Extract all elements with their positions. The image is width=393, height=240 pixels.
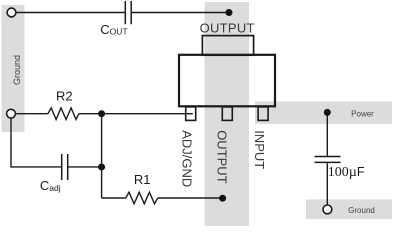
wire left down to Cadj bbox=[11, 118, 61, 167]
capacitor COUT bbox=[125, 1, 131, 24]
pin 2 OUTPUT bbox=[222, 107, 232, 121]
capacitor Cadj bbox=[62, 154, 68, 180]
node: output junction dot (top) bbox=[226, 9, 233, 16]
output net band (vertical) bbox=[205, 2, 250, 226]
svg-text:INPUT: INPUT bbox=[252, 130, 267, 169]
wire top: terminal to COUT to output node bbox=[16, 12, 229, 14]
wire from R2 to pin ADJ/GND bbox=[79, 113, 193, 115]
wire vertical junction column bbox=[101, 114, 103, 198]
svg-text:COUT: COUT bbox=[100, 22, 127, 37]
wire R1 to output node bbox=[158, 197, 223, 199]
wire Cadj to junction bbox=[68, 166, 101, 168]
svg-text:OUTPUT: OUTPUT bbox=[200, 21, 255, 36]
svg-text:ADJ/GND: ADJ/GND bbox=[179, 130, 194, 187]
wire to R1 bbox=[102, 197, 126, 199]
svg-text:100µF: 100µF bbox=[328, 165, 365, 180]
resistor R1 bbox=[126, 192, 158, 204]
capacitor C1 100uF bbox=[315, 157, 341, 163]
svg-text:OUTPUT: OUTPUT bbox=[214, 130, 229, 184]
wire power node down to C1 bbox=[326, 112, 328, 205]
svg-text:R2: R2 bbox=[56, 88, 73, 103]
power plane band (right) bbox=[255, 101, 392, 124]
svg-text:Power: Power bbox=[351, 110, 374, 119]
svg-text:R1: R1 bbox=[134, 172, 151, 187]
wire mid: terminal through R2 to ADJ pin bbox=[15, 113, 48, 115]
terminal (bottom right ground) bbox=[323, 205, 332, 214]
svg-text:Cadj: Cadj bbox=[40, 178, 61, 193]
node: output junction dot (bottom) bbox=[219, 195, 226, 202]
terminal (mid left) bbox=[7, 109, 16, 118]
ground plane band (bottom right) bbox=[306, 199, 392, 219]
node junction dot (Cadj) bbox=[98, 164, 105, 171]
ground plane band (left) bbox=[2, 5, 25, 132]
node: power junction dot bbox=[324, 109, 331, 116]
regulator U1 tab bbox=[202, 36, 253, 56]
pin 3 INPUT bbox=[258, 107, 268, 121]
terminal (top left) bbox=[7, 8, 16, 17]
node junction dot (R2 / Cadj / R1) bbox=[98, 110, 105, 117]
resistor R2 bbox=[48, 108, 79, 120]
pin 1 ADJ/GND bbox=[186, 107, 196, 121]
svg-text:Ground: Ground bbox=[12, 55, 22, 85]
regulator U1 body bbox=[179, 55, 275, 107]
svg-text:Ground: Ground bbox=[348, 206, 375, 215]
